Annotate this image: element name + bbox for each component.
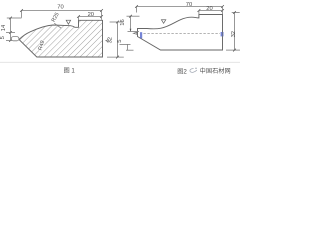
dimension 16 fig2 (left) <box>117 15 139 50</box>
watermark logo (swoosh) <box>190 67 197 72</box>
extension line corner fig1 left <box>7 17 22 19</box>
hidden dashed line fig2 <box>143 32 220 34</box>
dimension 70 fig1 (top) <box>20 4 103 17</box>
blue grip mark fig2 right <box>221 32 224 36</box>
radius label R49 fig1 (rotated, inside hatch) <box>37 40 46 51</box>
dimension 32 fig1 (right) <box>107 21 124 59</box>
dimension 5 fig1 (left) <box>0 36 15 42</box>
leader arrowhead fig1 right edge <box>106 40 108 42</box>
watermark text 中国石材网 <box>200 67 231 75</box>
surface finish triangle fig2 <box>161 20 165 24</box>
profile outline fig2 (ogee strip, no hatch) <box>138 15 223 51</box>
caption 图2 <box>177 68 187 75</box>
svg-text:图2: 图2 <box>177 68 187 75</box>
profile outline fig1 <box>19 20 103 57</box>
dimension 20 fig1 (step top) <box>77 11 103 21</box>
page rule (faint horizontal separator) <box>0 61 240 63</box>
svg-text:70: 70 <box>57 4 63 10</box>
blue grip mark fig2 left <box>140 32 142 38</box>
radius label R25 fig1 (rotated, with leader) <box>51 12 61 29</box>
balloon label fig1 (rounded box at left tip) <box>11 37 19 41</box>
svg-text:14: 14 <box>1 24 7 31</box>
svg-text:32: 32 <box>231 31 237 37</box>
dimension 20 fig2 (step top) <box>198 6 224 14</box>
svg-text:图 1: 图 1 <box>64 68 76 75</box>
svg-text:20: 20 <box>206 6 212 12</box>
surface finish triangle fig1 <box>66 20 70 24</box>
svg-text:5: 5 <box>117 40 123 43</box>
dimension 70 fig2 (top) <box>135 2 224 13</box>
svg-text:20: 20 <box>88 12 94 18</box>
profile body fig1 (hatched molding cross-section) <box>19 20 103 57</box>
svg-text:R25: R25 <box>51 12 61 24</box>
caption 图1 <box>64 68 76 75</box>
svg-text:70: 70 <box>186 2 192 8</box>
dimension 32 fig2 (right) <box>226 11 240 51</box>
svg-text:16: 16 <box>120 19 126 25</box>
svg-text:中国石材网: 中国石材网 <box>200 67 231 75</box>
dimension 14 fig1 (left) <box>1 17 15 41</box>
svg-text:5: 5 <box>0 36 6 39</box>
